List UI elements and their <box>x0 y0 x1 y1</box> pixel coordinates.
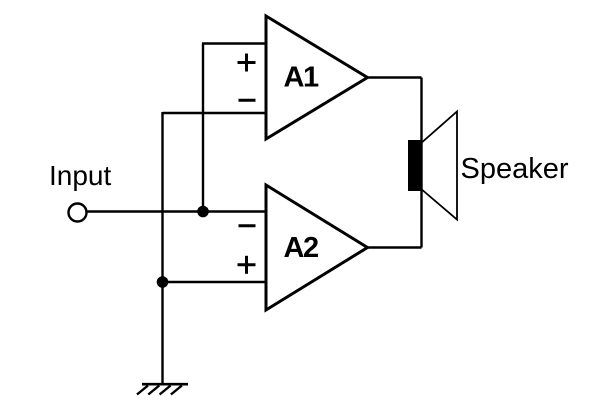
A2 + pin label <box>238 256 256 274</box>
wire A1 + horizontal <box>202 42 266 44</box>
svg-text:A2: A2 <box>284 232 318 264</box>
wire A2 output <box>368 246 422 248</box>
A1 - pin label <box>239 99 256 102</box>
wire A1 - horizontal <box>163 112 267 114</box>
input terminal <box>69 204 87 222</box>
op-amp A1 <box>266 16 368 139</box>
speaker LS1 <box>408 112 457 220</box>
ground <box>137 384 188 394</box>
wire input to A2 inverting input <box>88 210 267 212</box>
node ground/A2 junction <box>157 276 169 288</box>
A1 + pin label <box>238 54 256 72</box>
svg-text:Speaker: Speaker <box>461 153 569 185</box>
wire A2 + horizontal <box>163 281 267 283</box>
A2 - pin label <box>239 224 256 227</box>
op-amp A2 <box>266 185 368 310</box>
wire A1 output <box>368 76 422 78</box>
svg-text:Input: Input <box>49 160 111 191</box>
wire speaker vertical <box>420 78 422 248</box>
node input/A1 junction <box>197 206 209 218</box>
wire ground vertical <box>161 112 163 384</box>
svg-text:A1: A1 <box>284 62 319 94</box>
wire junction up to A1 + <box>202 44 204 212</box>
